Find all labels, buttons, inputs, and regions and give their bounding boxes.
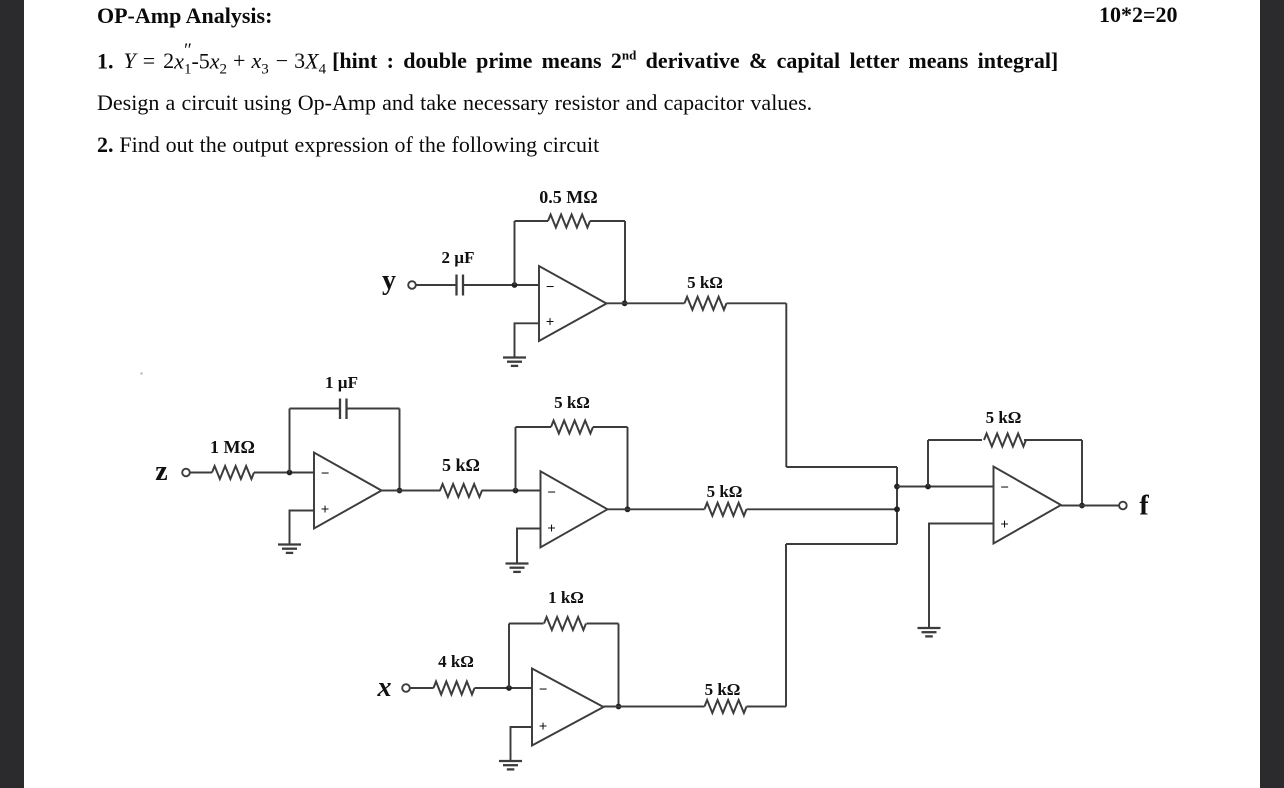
wire y to C1 <box>416 284 456 286</box>
resistor R2 5 kohm <box>685 297 727 310</box>
wire x to R7 <box>410 687 434 689</box>
node U2 input junction <box>287 470 293 476</box>
svg-text:x: x <box>377 672 392 703</box>
svg-text:−: − <box>1000 480 1009 496</box>
svg-text:+: + <box>546 315 555 331</box>
op-amp U2 <box>314 453 382 529</box>
wire U2 feedback top right <box>347 408 400 410</box>
capacitor C1 2uF <box>457 275 464 296</box>
svg-text:z: z <box>155 456 167 487</box>
wire R2 to top bus corner <box>727 302 787 304</box>
wire top branch vertical down <box>785 303 787 467</box>
problem 2 line <box>97 132 599 158</box>
wire U5 feedback right vertical <box>1081 440 1083 506</box>
wire R7 to U4 inverting input <box>475 687 533 689</box>
svg-text:5 kΩ: 5 kΩ <box>442 455 480 475</box>
svg-text:5 kΩ: 5 kΩ <box>687 273 723 292</box>
svg-text:5 kΩ: 5 kΩ <box>705 680 741 699</box>
wire U3 output <box>608 508 705 510</box>
wire U1 noninverting input <box>515 323 540 357</box>
svg-text:4 kΩ: 4 kΩ <box>438 652 474 671</box>
wire U2 feedback left vertical <box>289 409 291 473</box>
ground G5 <box>918 628 941 636</box>
ground G4 <box>499 761 522 769</box>
wire U3 noninverting input <box>517 529 541 564</box>
wire bottom branch to summing bus <box>786 543 897 545</box>
op-amp U4 <box>532 669 604 746</box>
wire U3 feedback left vertical <box>515 427 517 491</box>
svg-text:2 µF: 2 µF <box>442 248 475 267</box>
wire R3 to U2 inverting input <box>254 472 314 474</box>
wire R9 to bottom corner <box>747 706 787 708</box>
svg-text:1 kΩ: 1 kΩ <box>548 588 584 607</box>
node U4 output junction <box>616 704 622 710</box>
svg-text:−: − <box>546 280 555 296</box>
node U5 feedback junction <box>925 484 931 490</box>
terminal x <box>402 684 410 692</box>
wire R4 to U3 input <box>482 490 541 492</box>
resistor R5 5 kohm feedback <box>551 421 593 434</box>
right dark bar <box>1260 0 1284 788</box>
wire bus to U5 inverting input <box>897 486 994 488</box>
wire U5 feedback left vertical <box>927 440 929 487</box>
wire U3 feedback top right <box>593 426 628 428</box>
heading <box>97 3 272 29</box>
resistor R9 5 kohm <box>705 700 747 713</box>
wire U4 feedback left vertical <box>508 624 510 689</box>
terminal y <box>408 281 416 289</box>
wire U1 feedback top right <box>590 220 625 222</box>
resistor R3 1 Mohm <box>212 466 254 479</box>
wire U3 feedback right vertical <box>627 427 629 509</box>
problem 1 line <box>97 48 1058 79</box>
node U4 input junction <box>506 685 512 691</box>
wire U5 noninverting input <box>929 524 994 629</box>
svg-text:1 µF: 1 µF <box>325 373 358 392</box>
wire bottom branch vertical up <box>785 544 787 707</box>
wire R6 to summing bus <box>747 508 898 510</box>
wire U5 feedback top left <box>928 439 982 441</box>
node U5 output junction <box>1079 503 1085 509</box>
node U2 output junction <box>397 488 403 494</box>
resistor R10 5 kohm feedback <box>984 434 1026 447</box>
op-amp U1 <box>539 266 607 341</box>
svg-text:−: − <box>321 466 330 482</box>
wire U5 output <box>1061 505 1119 507</box>
node U3 output junction <box>625 506 631 512</box>
wire U2 feedback top left <box>290 408 340 410</box>
stray speck <box>140 372 142 374</box>
node U3 input junction <box>513 488 519 494</box>
terminal z <box>182 469 190 477</box>
svg-text:f: f <box>1139 491 1149 522</box>
svg-text:+: + <box>539 719 548 735</box>
wire z to R3 <box>190 472 212 474</box>
node bus tap upper <box>894 484 900 490</box>
wire summing bus vertical <box>896 467 898 544</box>
resistor R6 5 kohm <box>705 503 747 516</box>
wire U4 noninverting input <box>511 727 533 761</box>
capacitor C2 1uF feedback <box>340 399 347 420</box>
wire U4 feedback top right <box>587 623 619 625</box>
wire U4 output <box>604 706 705 708</box>
ground G1 <box>503 358 526 366</box>
node U1 input junction <box>512 282 518 288</box>
wire U1 feedback right vertical <box>624 221 626 303</box>
svg-text:5 kΩ: 5 kΩ <box>707 482 743 501</box>
node U1 output junction <box>622 300 628 306</box>
op-amp U3 <box>541 471 608 547</box>
svg-text:+: + <box>547 521 556 537</box>
svg-text:−: − <box>547 485 556 501</box>
resistor R1 0.5 Mohm feedback <box>548 215 590 228</box>
svg-text:5 kΩ: 5 kΩ <box>986 408 1022 427</box>
wire U3 feedback top left <box>516 426 552 428</box>
wire U2 output <box>382 490 441 492</box>
svg-text:y: y <box>382 265 396 296</box>
wire C1 to U1 inverting input <box>463 284 539 286</box>
resistor R7 4 kohm <box>434 682 475 695</box>
op-amp U5 <box>994 467 1062 544</box>
wire U4 feedback top left <box>509 623 544 625</box>
left dark bar <box>0 0 24 788</box>
svg-text:+: + <box>1000 517 1009 533</box>
ground G2 <box>278 545 301 553</box>
wire U1 feedback left vertical <box>514 221 516 285</box>
wire U2 feedback right vertical <box>399 409 401 491</box>
svg-text:0.5 MΩ: 0.5 MΩ <box>539 187 597 207</box>
wire U5 feedback top right <box>1024 439 1082 441</box>
svg-text:−: − <box>539 682 548 698</box>
wire U1 feedback top left <box>515 220 549 222</box>
svg-text:5 kΩ: 5 kΩ <box>554 393 590 412</box>
marks 10*2=20 <box>1099 2 1178 28</box>
wire U1 output <box>607 302 685 304</box>
terminal f <box>1119 502 1127 510</box>
resistor R4 5 kohm <box>440 484 482 497</box>
ground G3 <box>506 564 529 572</box>
wire U2 noninverting input <box>290 511 315 545</box>
wire U4 feedback right vertical <box>618 624 620 707</box>
design line <box>97 90 812 116</box>
resistor R8 1 kohm feedback <box>544 617 586 630</box>
svg-text:1 MΩ: 1 MΩ <box>210 437 255 457</box>
node bus tap lower <box>894 506 900 512</box>
wire top branch to summing bus <box>786 466 897 468</box>
svg-text:+: + <box>321 502 330 518</box>
